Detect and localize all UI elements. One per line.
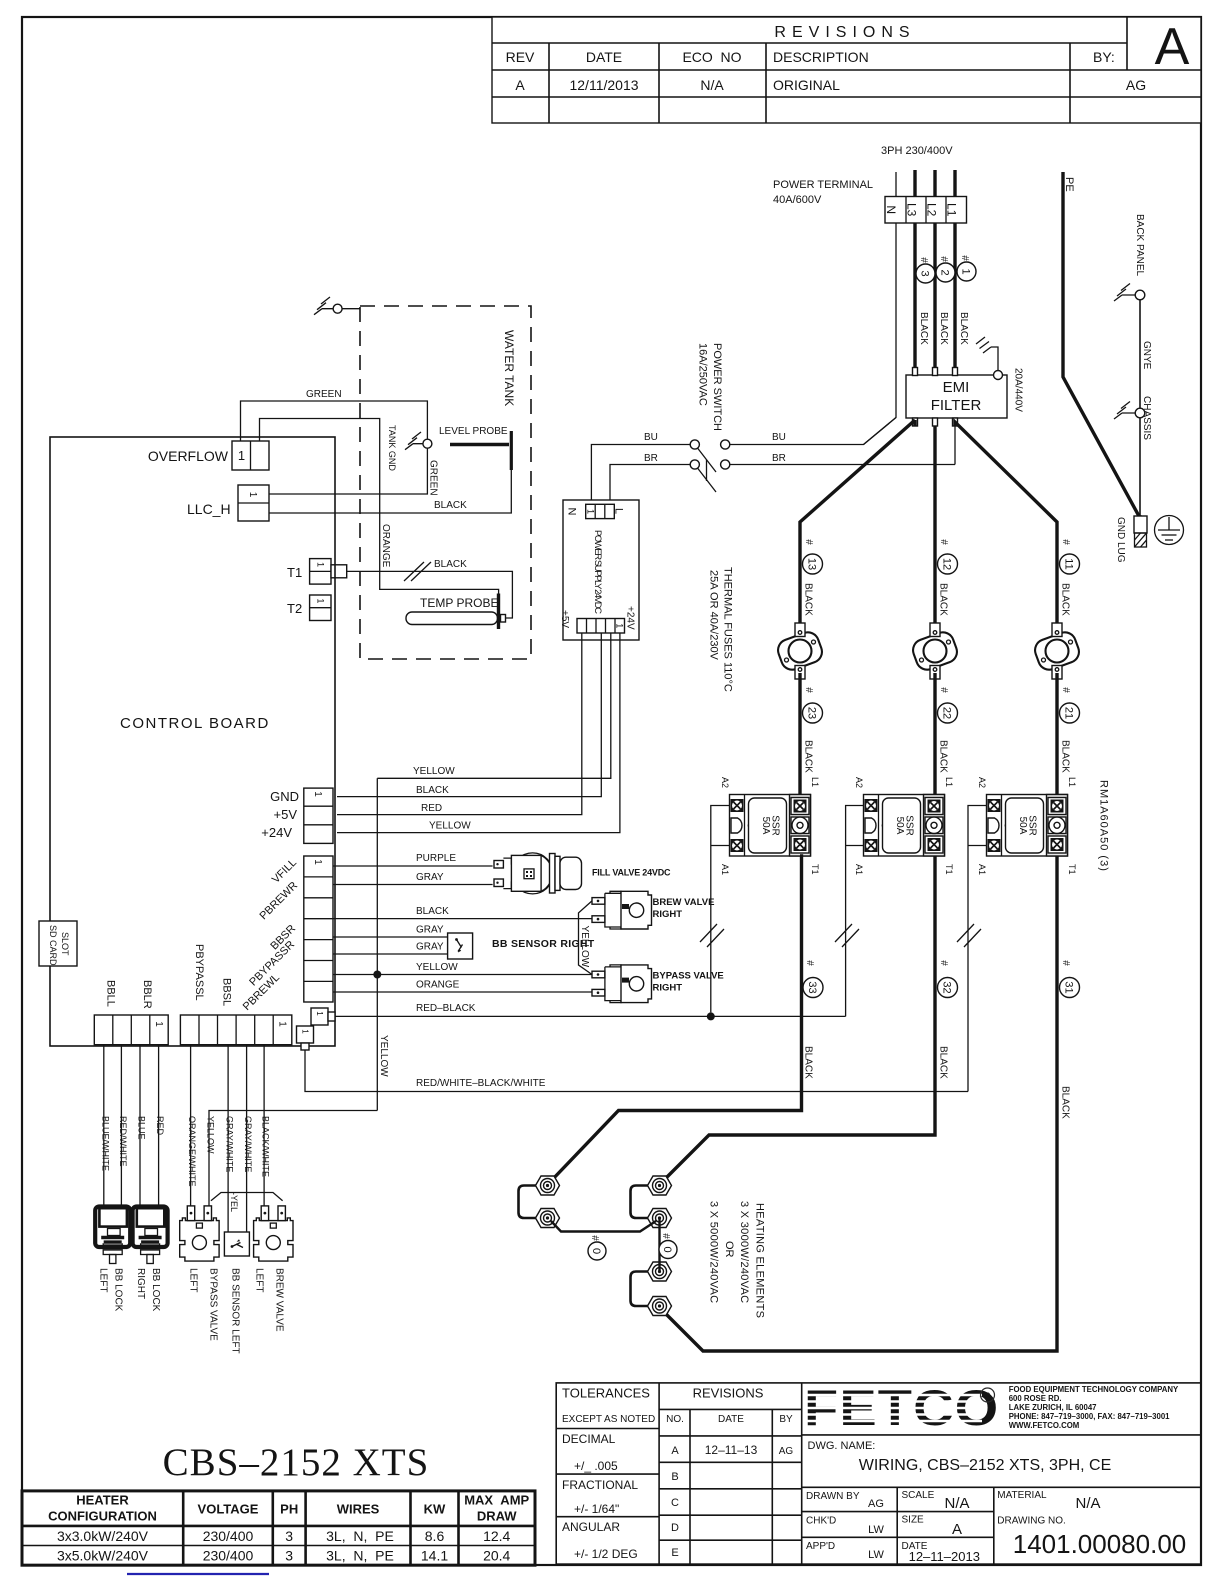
- svg-text:ORANGE: ORANGE: [416, 980, 460, 991]
- svg-text:BLACK: BLACK: [938, 1046, 949, 1079]
- branch2 wire mid: [933, 673, 936, 795]
- wire BR tap from EMI pin3: [954, 426, 956, 465]
- wire EMI out 1 to branch1: [800, 420, 915, 540]
- bb lock left: [95, 1207, 130, 1264]
- svg-text:N/A: N/A: [1075, 1495, 1100, 1512]
- svg-text:YELLOW: YELLOW: [579, 926, 590, 968]
- svg-text:AG: AG: [1126, 77, 1146, 93]
- llc_h connector: [238, 485, 269, 521]
- wire GRAY bbsr 1: [333, 936, 448, 938]
- svg-text:BBLR: BBLR: [141, 980, 153, 1009]
- overflow connector: [232, 441, 269, 470]
- svg-text:A2: A2: [854, 777, 864, 788]
- fetco logo: [804, 1381, 999, 1437]
- EMI ground wire: [991, 347, 998, 371]
- svg-text:ANGULAR: ANGULAR: [562, 1520, 620, 1534]
- wire number circle 23: [803, 687, 823, 723]
- EMI output pin pads: [913, 418, 958, 426]
- svg-text:#: #: [803, 687, 814, 693]
- wire BU left segment: [591, 445, 690, 505]
- heater table row 2: [57, 1548, 511, 1564]
- bypass valve left: [180, 1206, 219, 1261]
- heating element 1 bottom terminal: [536, 1209, 560, 1228]
- wire YELLOW bridge right valves: [579, 901, 593, 975]
- T2 connector: [310, 595, 331, 621]
- wire ORANGE/WHITE: [190, 1045, 192, 1207]
- svg-text:THERMAL FUSES 110°C: THERMAL FUSES 110°C: [722, 567, 734, 692]
- break symbol T1 wire: [404, 562, 431, 581]
- svg-text:SCALE: SCALE: [902, 1490, 935, 1501]
- svg-text:FRACTIONAL: FRACTIONAL: [562, 1478, 638, 1492]
- svg-text:#: #: [959, 255, 970, 261]
- svg-text:N: N: [566, 508, 578, 516]
- svg-text:BR: BR: [644, 453, 658, 464]
- svg-text:1: 1: [312, 791, 323, 797]
- svg-text:WWW.FETCO.COM: WWW.FETCO.COM: [1009, 1421, 1080, 1430]
- wire GRAY/WHITE 2: [246, 1045, 248, 1232]
- rwbw connector: [297, 1026, 314, 1050]
- svg-text:B: B: [671, 1471, 678, 1483]
- svg-text:FILTER: FILTER: [931, 397, 982, 414]
- svg-text:#: #: [918, 257, 929, 263]
- svg-text:EXCEPT AS NOTED: EXCEPT AS NOTED: [562, 1414, 655, 1425]
- svg-text:DRAWING NO.: DRAWING NO.: [997, 1516, 1066, 1527]
- svg-text:YELLOW: YELLOW: [429, 821, 471, 832]
- svg-text:20A/440V: 20A/440V: [1013, 368, 1024, 412]
- wire link he2-he3: [658, 1218, 660, 1272]
- tank gnd stud circle: [423, 439, 432, 448]
- svg-text:BU: BU: [772, 432, 786, 443]
- svg-text:3: 3: [919, 270, 931, 276]
- svg-text:3PH 230/400V: 3PH 230/400V: [881, 145, 953, 157]
- svg-text:GRAY/WHITE: GRAY/WHITE: [243, 1116, 253, 1172]
- svg-text:CHK'D: CHK'D: [806, 1516, 836, 1527]
- wire RED: [158, 1045, 160, 1207]
- label heating elements block: [708, 1201, 766, 1318]
- svg-text:HEATER: HEATER: [76, 1493, 129, 1508]
- svg-text:KW: KW: [424, 1502, 446, 1517]
- svg-text:1: 1: [312, 859, 323, 865]
- svg-text:YELLOW: YELLOW: [413, 766, 455, 777]
- svg-text:LEVEL PROBE: LEVEL PROBE: [439, 426, 508, 437]
- svg-text:BLACK: BLACK: [434, 559, 467, 570]
- svg-text:CBS–2152 XTS: CBS–2152 XTS: [163, 1441, 430, 1484]
- svg-text:BR: BR: [772, 453, 786, 464]
- svg-text:3L, N, PE: 3L, N, PE: [326, 1528, 394, 1544]
- svg-text:#: #: [803, 539, 814, 545]
- svg-text:RED/WHITE: RED/WHITE: [118, 1116, 128, 1167]
- svg-text:21: 21: [1063, 707, 1075, 719]
- svg-text:LEFT: LEFT: [188, 1268, 199, 1292]
- wire GREEN overflow to tank gnd: [241, 401, 428, 441]
- svg-text:REVISIONS: REVISIONS: [693, 1386, 764, 1401]
- svg-text:LAKE ZURICH, IL 60047: LAKE ZURICH, IL 60047: [1009, 1403, 1097, 1412]
- revisions table outline: [492, 17, 1201, 123]
- svg-text:11: 11: [1063, 558, 1075, 569]
- svg-text:GRAY: GRAY: [416, 925, 444, 936]
- svg-text:BLACK: BLACK: [938, 740, 949, 773]
- svg-text:CONTROL BOARD: CONTROL BOARD: [120, 715, 270, 732]
- svg-text:LEFT: LEFT: [98, 1268, 109, 1292]
- wire PS pin3 black to GND: [337, 633, 601, 797]
- wire L1 to EMI: [953, 223, 956, 372]
- svg-text:12–11–13: 12–11–13: [705, 1443, 758, 1457]
- svg-text:1: 1: [315, 1011, 324, 1016]
- svg-text:POWER SWITCH: POWER SWITCH: [711, 343, 723, 431]
- bb lock right: [133, 1207, 168, 1264]
- wire link he1-he2: [551, 1221, 656, 1232]
- wire BLACK T1 to temp probe: [347, 571, 513, 618]
- ssr3 control wires: [968, 806, 987, 1092]
- svg-text:WIRES: WIRES: [337, 1502, 380, 1517]
- svg-text:A: A: [671, 1445, 679, 1457]
- svg-text:TEMP PROBE: TEMP PROBE: [420, 596, 498, 610]
- thermal fuse F1: [775, 623, 825, 679]
- wire L1 supply drop: [953, 170, 956, 196]
- svg-text:DESCRIPTION: DESCRIPTION: [773, 49, 869, 65]
- svg-text:HEATING ELEMENTS: HEATING ELEMENTS: [754, 1203, 766, 1318]
- svg-text:BLACK: BLACK: [803, 740, 814, 773]
- svg-text:SIZE: SIZE: [902, 1515, 925, 1526]
- wire number circle 0 link1: [588, 1235, 606, 1260]
- fetco address: [1009, 1385, 1179, 1430]
- svg-text:GND: GND: [270, 789, 299, 804]
- svg-text:ORANGE: ORANGE: [380, 524, 391, 568]
- break symbol ssr1 control: [700, 924, 724, 947]
- wire GRAY/WHITE 1: [227, 1045, 229, 1232]
- svg-text:3 X 5000W/240VAC: 3 X 5000W/240VAC: [708, 1201, 720, 1303]
- SSR2: [864, 795, 945, 857]
- back panel stud circle: [1135, 290, 1145, 300]
- svg-text:3: 3: [285, 1548, 293, 1564]
- wire number circle 31: [1060, 960, 1080, 997]
- svg-text:SLOT: SLOT: [60, 932, 70, 956]
- svg-text:25A OR 40A/230V: 25A OR 40A/230V: [708, 570, 720, 661]
- heater table headers: [48, 1493, 529, 1524]
- wire number circle 3: [916, 257, 935, 283]
- svg-text:8.6: 8.6: [425, 1528, 445, 1544]
- SSR3: [987, 795, 1068, 857]
- svg-text:+/_ .005: +/_ .005: [574, 1459, 618, 1473]
- svg-text:0: 0: [661, 1246, 673, 1252]
- wire BLACK llc_h to level probe: [269, 470, 511, 513]
- svg-text:RED/WHITE–BLACK/WHITE: RED/WHITE–BLACK/WHITE: [416, 1078, 546, 1089]
- wire ORANGE pbypassr: [333, 991, 592, 993]
- gnd connector block: [304, 788, 333, 843]
- svg-text:BLACK: BLACK: [1060, 1086, 1071, 1119]
- svg-text:1: 1: [586, 509, 596, 514]
- svg-text:BLACK: BLACK: [434, 500, 467, 511]
- red-black connector: [311, 1008, 335, 1025]
- wire N supply drop: [895, 172, 897, 196]
- svg-text:BB SENSOR LEFT: BB SENSOR LEFT: [230, 1268, 241, 1354]
- svg-text:A1: A1: [720, 864, 730, 875]
- wire number circle 21: [1060, 687, 1080, 723]
- svg-text:BU: BU: [644, 432, 658, 443]
- wire RED/WHITE-BLACK/WHITE: [305, 1050, 968, 1092]
- wire L3 supply drop: [913, 170, 916, 196]
- fill valve symbol: [494, 853, 582, 894]
- svg-text:TANK GND: TANK GND: [387, 425, 397, 471]
- svg-text:+5V: +5V: [559, 610, 570, 628]
- svg-text:YELLOW: YELLOW: [206, 1116, 216, 1154]
- svg-text:RED–BLACK: RED–BLACK: [416, 1003, 476, 1014]
- sd card slot: [39, 921, 77, 966]
- svg-text:WIRING, CBS–2152 XTS, 3PH,: WIRING, CBS–2152 XTS, 3PH, CE: [859, 1457, 1112, 1474]
- branch1 wire lower: [551, 856, 802, 1181]
- svg-text:REV: REV: [506, 49, 535, 65]
- wire GNYE: [1139, 300, 1141, 408]
- svg-text:L3: L3: [905, 203, 919, 217]
- svg-text:C: C: [671, 1497, 679, 1509]
- svg-text:3x3.0kW/240V: 3x3.0kW/240V: [57, 1528, 149, 1544]
- svg-text:BACK PANEL: BACK PANEL: [1134, 214, 1145, 276]
- svg-text:#: #: [938, 687, 949, 693]
- svg-text:12: 12: [941, 558, 953, 570]
- svg-text:22: 22: [941, 707, 953, 719]
- svg-text:#: #: [938, 256, 949, 262]
- wire EMI out 3 to branch3: [955, 422, 1057, 540]
- wire GRAY vfill: [333, 884, 493, 886]
- ground symbol back panel: [1114, 284, 1136, 302]
- svg-text:DATE: DATE: [718, 1414, 744, 1425]
- svg-text:LLC_H: LLC_H: [187, 501, 231, 517]
- svg-text:GND LUG: GND LUG: [1115, 517, 1126, 563]
- break symbol ssr2 control: [835, 924, 859, 947]
- svg-text:#: #: [1060, 687, 1071, 693]
- svg-text:WATER TANK: WATER TANK: [502, 330, 516, 406]
- svg-text:TOLERANCES: TOLERANCES: [562, 1386, 650, 1401]
- svg-text:NO.: NO.: [666, 1414, 684, 1425]
- svg-text:YELLOW: YELLOW: [378, 1035, 389, 1077]
- title block outline: [556, 1383, 1201, 1564]
- svg-text:#: #: [1060, 539, 1071, 545]
- power switch levers: [698, 448, 717, 492]
- svg-text:+/- 1/2 DEG: +/- 1/2 DEG: [574, 1547, 638, 1561]
- wire YELLOW left drop: [209, 1111, 377, 1206]
- wire PURPLE vfill: [333, 865, 493, 867]
- svg-text:N/A: N/A: [944, 1495, 969, 1512]
- power supply DC terminal cells: [577, 619, 625, 634]
- wire RED/WHITE: [120, 1045, 122, 1207]
- svg-text:1: 1: [238, 448, 245, 463]
- svg-text:DRAWN BY: DRAWN BY: [806, 1491, 860, 1502]
- svg-text:L1: L1: [1067, 777, 1077, 787]
- svg-text:FILL VALVE 24VDC: FILL VALVE 24VDC: [592, 868, 671, 878]
- svg-text:LW: LW: [868, 1524, 884, 1536]
- svg-text:1: 1: [301, 1029, 310, 1034]
- heating element 1 bracket: [519, 1186, 537, 1219]
- svg-text:APP'D: APP'D: [806, 1541, 835, 1552]
- svg-text:PBYPASSL: PBYPASSL: [193, 944, 205, 1001]
- thermal fuse F2: [910, 623, 960, 679]
- svg-text:BBLL: BBLL: [105, 980, 117, 1007]
- wire YELLOW pbypassr: [333, 974, 592, 976]
- svg-text:33: 33: [806, 981, 818, 993]
- svg-text:POWER TERMINAL: POWER TERMINAL: [773, 179, 873, 191]
- gnd lug: [1134, 515, 1147, 547]
- svg-text:+24V: +24V: [625, 606, 636, 630]
- svg-text:GRAY: GRAY: [416, 872, 444, 883]
- revisions table headers: [506, 49, 1115, 65]
- svg-text:PHONE: 847–719–3000, FAX: 8: PHONE: 847–719–3000, FAX: 847–719–3001: [1009, 1412, 1170, 1421]
- svg-text:1401.00080.00: 1401.00080.00: [1013, 1529, 1187, 1559]
- svg-text:BBSL: BBSL: [220, 978, 232, 1006]
- svg-text:POWER SUPPLY 24VDC: POWER SUPPLY 24VDC: [592, 530, 603, 614]
- branch1 wire mid: [798, 673, 801, 795]
- thermal fuse F3: [1032, 623, 1082, 679]
- svg-text:T1: T1: [944, 864, 954, 875]
- wire number circle 12: [938, 539, 958, 574]
- ssr2 control wires: [846, 806, 864, 1017]
- wire BLACK pbrewr: [333, 918, 592, 920]
- svg-text:L1: L1: [945, 203, 959, 217]
- wire number circle 11: [1060, 539, 1080, 574]
- left valve connector block: [180, 1015, 291, 1045]
- wire yellow bridge left valves: [211, 1193, 283, 1201]
- svg-text:RED: RED: [421, 803, 442, 814]
- bypass valve right symbol: [592, 965, 652, 1003]
- chassis stud circle: [1135, 408, 1145, 418]
- ground symbol EMI: [976, 337, 991, 353]
- svg-text:FOOD EQUIPMENT TECHNOLOGY C: FOOD EQUIPMENT TECHNOLOGY COMPANY: [1009, 1385, 1179, 1394]
- wire BLUE/WHITE: [103, 1045, 105, 1207]
- wire number circle 0 link2: [659, 1233, 677, 1258]
- svg-text:L1: L1: [810, 777, 820, 787]
- svg-text:2: 2: [939, 269, 951, 275]
- svg-text:OVERFLOW: OVERFLOW: [148, 448, 229, 464]
- wire BR right segment: [730, 464, 955, 466]
- wire number circle 22: [938, 687, 958, 723]
- control board outline: [50, 437, 335, 1046]
- svg-text:VOLTAGE: VOLTAGE: [198, 1502, 259, 1517]
- brew valve left: [254, 1206, 293, 1261]
- svg-text:GREEN: GREEN: [428, 460, 439, 496]
- svg-text:T2: T2: [287, 601, 302, 616]
- svg-text:GNYE: GNYE: [1141, 341, 1152, 370]
- svg-text:#: #: [589, 1235, 600, 1241]
- svg-text:AG: AG: [868, 1498, 884, 1510]
- brew valve right symbol: [592, 891, 652, 929]
- svg-text:1: 1: [153, 1021, 164, 1027]
- svg-text:BYPASS VALVE: BYPASS VALVE: [208, 1268, 219, 1341]
- svg-text:A2: A2: [720, 777, 730, 788]
- wire PS pin1 red to +5V: [337, 633, 582, 815]
- svg-text:BY: BY: [779, 1414, 793, 1425]
- svg-text:#: #: [804, 960, 815, 966]
- wire BR left segment: [610, 465, 690, 505]
- wire chassis to gnd lug: [1139, 418, 1141, 518]
- svg-text:A: A: [952, 1521, 962, 1538]
- heater table row 1: [57, 1528, 511, 1544]
- wire L3 to EMI: [913, 223, 916, 372]
- heating element 1 top terminal: [536, 1176, 560, 1195]
- svg-text:BLACK: BLACK: [958, 312, 969, 345]
- svg-text:A2: A2: [977, 777, 987, 788]
- svg-text:BLACK: BLACK: [803, 1046, 814, 1079]
- svg-text:R: R: [985, 1392, 991, 1401]
- wire N to switch: down then diagonal: [864, 223, 897, 445]
- power supply box: [563, 500, 639, 640]
- svg-text:GREEN: GREEN: [306, 389, 342, 400]
- wire GRAY bbsr 2: [333, 953, 448, 955]
- svg-text:AG: AG: [779, 1446, 794, 1457]
- water tank dashed box: [360, 306, 531, 659]
- wire BU right segment: [730, 418, 896, 445]
- level probe: [439, 426, 511, 470]
- svg-text:PE: PE: [1063, 177, 1075, 192]
- svg-text:BREW VALVE: BREW VALVE: [274, 1268, 285, 1332]
- svg-text:BLACK: BLACK: [938, 583, 949, 616]
- svg-text:230/400: 230/400: [203, 1548, 254, 1564]
- tolerances column: [562, 1386, 655, 1562]
- wire L2 to EMI: [933, 223, 936, 372]
- svg-text:12–11–2013: 12–11–2013: [909, 1549, 980, 1564]
- SSR1: [730, 795, 811, 857]
- svg-text:CONFIGURATION: CONFIGURATION: [48, 1509, 157, 1524]
- svg-text:CHASSIS: CHASSIS: [1141, 396, 1152, 440]
- svg-text:MATERIAL: MATERIAL: [997, 1490, 1047, 1501]
- svg-text:600 ROSE RD.: 600 ROSE RD.: [1009, 1394, 1062, 1403]
- wire number circle 33: [803, 960, 823, 997]
- wire ORANGE overflow pin2: [260, 419, 499, 611]
- branch3 wire upper: [1055, 540, 1058, 629]
- branch2 wire lower: [663, 856, 935, 1181]
- svg-text:1: 1: [615, 623, 625, 628]
- vfill connector stack: [304, 856, 333, 1002]
- svg-text:OR: OR: [723, 1241, 735, 1258]
- wire number circle 1: [957, 255, 976, 281]
- revisions mini table: [666, 1386, 793, 1560]
- wire GREEN llc_h to tank gnd: [269, 448, 427, 494]
- svg-text:ORANGE/WHITE: ORANGE/WHITE: [187, 1116, 197, 1187]
- svg-text:A: A: [1155, 18, 1190, 76]
- svg-text:1: 1: [316, 562, 326, 567]
- svg-text:LEFT: LEFT: [254, 1268, 265, 1292]
- svg-text:A1: A1: [977, 864, 987, 875]
- svg-text:BLACK/WHITE: BLACK/WHITE: [261, 1116, 271, 1177]
- svg-text:3L, N, PE: 3L, N, PE: [326, 1548, 394, 1564]
- svg-text:ORIGINAL: ORIGINAL: [773, 77, 840, 93]
- svg-text:EMI: EMI: [943, 379, 970, 396]
- svg-text:E: E: [671, 1547, 678, 1559]
- svg-text:230/400: 230/400: [203, 1528, 254, 1544]
- svg-text:31: 31: [1063, 981, 1075, 993]
- svg-text:GRAY/WHITE: GRAY/WHITE: [225, 1116, 235, 1172]
- svg-text:BY:: BY:: [1093, 49, 1115, 65]
- svg-text:LW: LW: [868, 1549, 884, 1561]
- svg-text:BLACK: BLACK: [918, 312, 929, 345]
- wire BLUE: [139, 1045, 141, 1207]
- svg-text:BLACK: BLACK: [416, 785, 449, 796]
- svg-text:40A/600V: 40A/600V: [773, 194, 822, 206]
- svg-text:T1: T1: [810, 864, 820, 875]
- EMI filter box: [906, 375, 1007, 418]
- svg-text:BLACK: BLACK: [938, 312, 949, 345]
- svg-text:13: 13: [806, 558, 818, 570]
- svg-text:RM1A60A50 (3): RM1A60A50 (3): [1098, 780, 1110, 872]
- svg-text:MAX AMP: MAX AMP: [464, 1493, 529, 1508]
- temp probe: [406, 594, 506, 630]
- revisions row A: [515, 77, 1146, 93]
- svg-text:T1: T1: [287, 565, 302, 580]
- wire number circle 32: [938, 960, 958, 997]
- svg-text:DATE: DATE: [586, 49, 622, 65]
- svg-text:D: D: [671, 1522, 679, 1534]
- bb lock connector block: [94, 1015, 168, 1045]
- power supply AC terminal cells: [586, 504, 615, 518]
- ground symbol chassis: [1114, 402, 1136, 420]
